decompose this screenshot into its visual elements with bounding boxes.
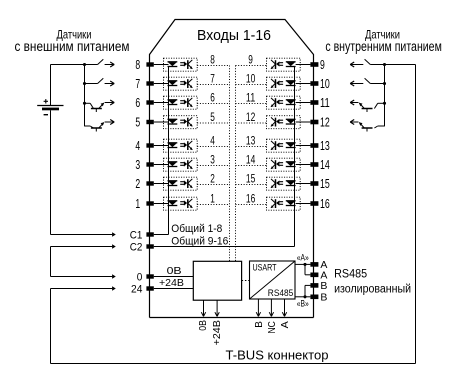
svg-text:8: 8 [135,58,140,72]
svg-text:C1: C1 [130,230,143,242]
svg-text:«В»: «В» [297,299,309,310]
svg-text:0В: 0В [167,265,182,277]
svg-text:16: 16 [246,192,256,206]
svg-text:16: 16 [320,197,330,211]
svg-text:10: 10 [246,72,256,86]
svg-text:1: 1 [210,192,215,206]
svg-text:с внешним питанием: с внешним питанием [15,39,130,54]
svg-text:4: 4 [210,134,215,148]
svg-text:7: 7 [135,77,140,91]
svg-text:0В: 0В [197,320,209,331]
svg-text:5: 5 [135,115,140,129]
svg-text:NC: NC [266,321,278,334]
svg-text:9: 9 [248,53,253,67]
svg-text:8: 8 [210,53,215,67]
svg-text:B: B [320,291,327,303]
svg-text:«А»: «А» [297,253,309,264]
svg-text:2: 2 [210,172,215,186]
svg-text:3: 3 [135,158,140,172]
svg-text:5: 5 [210,110,215,124]
svg-text:15: 15 [246,172,256,186]
svg-text:2: 2 [135,177,140,191]
svg-text:9: 9 [320,58,325,72]
svg-text:7: 7 [210,72,215,86]
svg-text:USART: USART [253,262,277,273]
svg-text:4: 4 [135,139,140,153]
svg-text:3: 3 [210,153,215,167]
svg-text:В: В [253,321,265,328]
svg-text:13: 13 [246,134,256,148]
svg-text:B: B [320,280,327,292]
svg-text:+24В: +24В [159,277,184,289]
svg-text:0: 0 [137,272,143,284]
svg-text:+24В: +24В [211,320,223,345]
svg-text:Входы 1-16: Входы 1-16 [197,27,271,44]
svg-text:Общий 9-16: Общий 9-16 [171,236,228,248]
svg-text:15: 15 [320,177,330,191]
svg-text:А: А [279,321,291,328]
svg-text:11: 11 [246,91,256,105]
svg-text:RS485: RS485 [334,266,367,280]
svg-text:6: 6 [210,91,215,105]
svg-text:Общий 1-8: Общий 1-8 [171,223,222,235]
svg-text:с внутренним питанием: с внутренним питанием [325,39,442,54]
svg-text:14: 14 [246,153,256,167]
svg-text:T-BUS коннектор: T-BUS коннектор [226,347,329,362]
svg-text:13: 13 [320,139,330,153]
svg-text:изолированный: изолированный [334,283,411,295]
svg-text:1: 1 [135,197,140,211]
svg-text:6: 6 [135,96,140,110]
svg-text:RS485: RS485 [268,288,294,299]
svg-text:12: 12 [246,110,256,124]
svg-text:C2: C2 [130,242,143,254]
svg-text:11: 11 [320,96,330,110]
svg-text:10: 10 [320,77,330,91]
svg-text:12: 12 [320,115,330,129]
svg-text:24: 24 [131,284,142,296]
svg-text:14: 14 [320,158,330,172]
